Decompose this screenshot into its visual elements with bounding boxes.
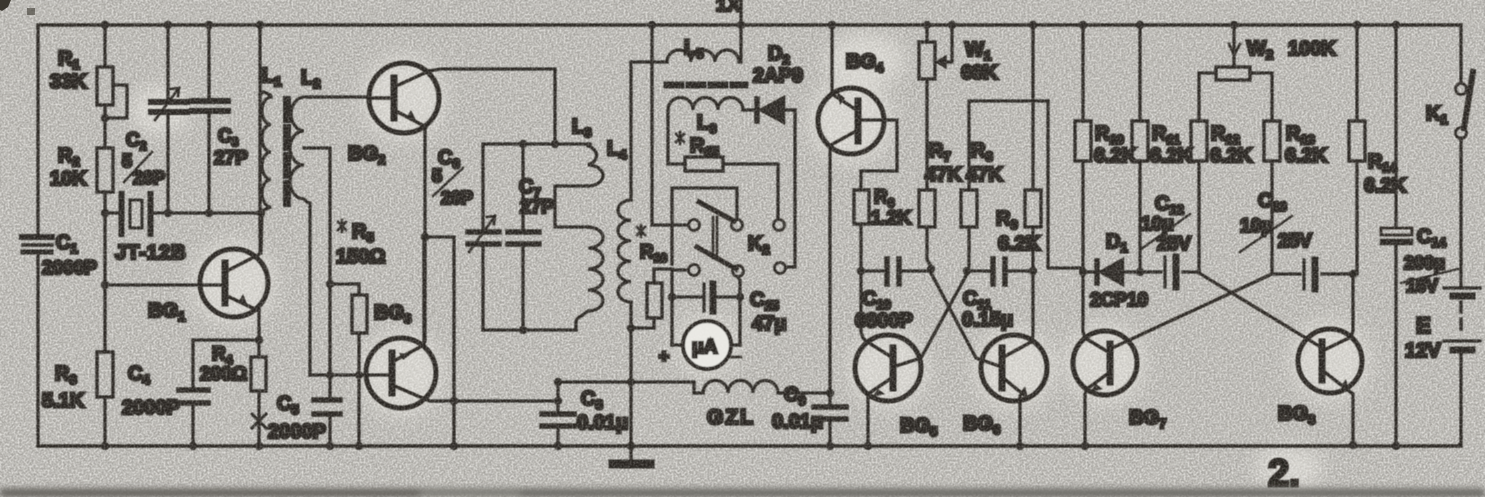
resistor R13 [1264, 121, 1328, 273]
wire right rail bottom corner [1458, 444, 1461, 446]
inductor L2 [290, 67, 320, 375]
node bus R14 [1353, 21, 1361, 29]
transistor BG5 [855, 335, 937, 439]
wire top supply bus [38, 23, 1461, 26]
transistor BG7 [1073, 331, 1166, 431]
wire R1 trimmer hook [108, 85, 127, 118]
relay contact K2 [672, 188, 786, 277]
capacitor C4 [122, 363, 208, 446]
inductor L1 [261, 65, 281, 253]
wire BG1 collector up / L1 bottom [260, 92, 270, 253]
wire R6 to BG5 collector node [859, 224, 862, 271]
node L4 bottom bus [627, 442, 635, 450]
wire BG4 collector down [828, 148, 831, 393]
node base join [101, 281, 109, 289]
node C8 top [554, 378, 562, 386]
resistor R4 [200, 344, 266, 391]
potentiometer W2 [1199, 25, 1336, 121]
node C8 emitter row join [554, 397, 562, 405]
capacitor C5 [268, 393, 340, 446]
wire BG1 base [105, 283, 222, 286]
core L1/L2 [283, 100, 291, 203]
resistor R15 [676, 132, 723, 171]
core L5/L6 [667, 82, 745, 89]
node C13 right [1349, 270, 1357, 278]
wire cross-couple C11 to BG5 base [896, 274, 967, 366]
wire L2 top to BG2 base [310, 95, 369, 98]
star mark C5 selected [252, 412, 266, 430]
transistor BG4 [818, 51, 884, 154]
wire cross-couple C12 to BG8 base [1199, 273, 1319, 346]
node D1 row right [1136, 268, 1144, 276]
node C15 joints [668, 293, 744, 301]
resistor R2 [50, 145, 113, 192]
wire cross-couple C10 to BG6 base [931, 273, 999, 366]
wire antenna 1X [739, 0, 742, 62]
node bus-R1 [101, 21, 109, 29]
resistor R8 [961, 101, 1048, 266]
wire BG8 emitter to bus [1345, 388, 1353, 444]
meter uA [659, 321, 741, 369]
capacitor C8 [542, 382, 628, 446]
capacitor C1 [22, 232, 97, 279]
diode D2 [743, 43, 803, 123]
top-left corner mark [0, 0, 35, 15]
capacitor C15 [672, 284, 786, 335]
wire BG5 collector up [861, 271, 866, 341]
node L4-GZL row cross [627, 378, 635, 386]
capacitor C12 [1140, 193, 1199, 287]
white scan highlight halos [130, 34, 1370, 490]
wire L2 tap to C5 line [304, 148, 330, 400]
node bus R10 [1079, 21, 1087, 29]
node bus-K2 [648, 21, 656, 29]
wire R8 top to D1 row [1048, 101, 1083, 268]
node tank top joints [519, 140, 559, 148]
crystal JT-12B [115, 194, 187, 264]
wire left rail [36, 25, 39, 446]
node R5 top [326, 280, 334, 288]
capacitor C14 [1381, 25, 1458, 446]
capacitor C13 [1240, 190, 1353, 289]
wire bus to K2 upper-left contact [652, 25, 688, 225]
wire L6 left to R15 [668, 110, 685, 164]
node emitter split [255, 336, 263, 344]
wire tank bottom row [483, 328, 576, 331]
node bus W1 [923, 21, 931, 29]
capacitor C2 (trimmer) [122, 25, 187, 213]
node C11 ends [963, 267, 1037, 275]
resistor R16 [631, 225, 672, 328]
transistor BG1 [148, 249, 268, 324]
inductor L3 [572, 116, 603, 330]
node bottom bus joints [101, 441, 1400, 450]
node GZL right [826, 389, 834, 397]
transistor BG2 [348, 63, 439, 167]
node base row joints [326, 371, 363, 379]
node bus-C3 [205, 21, 213, 29]
wire BG6 emitter to bus [1018, 396, 1021, 446]
node tank bottom C7 [519, 326, 527, 334]
wire emitter to ground rail [425, 237, 454, 446]
wire BG2 emitter down [423, 128, 426, 341]
resistor R12 [1191, 121, 1253, 272]
diode D1 [1083, 231, 1148, 311]
wire GZL row [558, 382, 703, 393]
wire BG3 emitter row [425, 399, 558, 401]
wire BG3 base row [310, 373, 392, 376]
resistor R10 [1075, 25, 1137, 272]
node R1 bottom [101, 114, 109, 122]
wire L4 column [629, 62, 632, 446]
inductor GZL [703, 380, 830, 429]
wire BG7 collector up [1083, 272, 1085, 338]
wire cross-couple C13 to BG7 base [1112, 274, 1272, 348]
wire BG7 emitter to bus [1085, 389, 1087, 446]
wire bottom bus [38, 444, 1460, 447]
wire BG3 collector up [422, 237, 425, 345]
transistor BG3 [366, 302, 436, 408]
node crystal row joints [101, 209, 265, 217]
resistor R6 [854, 187, 911, 229]
switch K1 [1426, 25, 1473, 139]
capacitor C11 [962, 259, 1033, 331]
capacitor C3 [192, 25, 248, 213]
node D1 row left [1079, 268, 1087, 276]
wire BG6 collector up [1031, 271, 1033, 342]
wire BG2 collector to tank top [429, 69, 555, 143]
node bus-L1 [256, 21, 264, 29]
node bus W2 [1230, 21, 1238, 29]
node bus W1 wiper [948, 21, 956, 29]
capacitor C6 (trimmer) [432, 145, 499, 330]
node bus BG4 [828, 21, 836, 29]
resistor R1 [50, 48, 113, 105]
wire crystal row [105, 211, 261, 214]
transistor BG8 [1278, 329, 1362, 427]
battery E [1405, 138, 1480, 446]
inductor L6 [668, 98, 743, 137]
wire BG4 emitter to bus [830, 25, 833, 94]
ground [613, 446, 650, 464]
inductor L4 [607, 138, 631, 302]
node bus-C2 [164, 21, 172, 29]
capacitor C10 [855, 259, 931, 332]
node L4-R16 join [627, 324, 635, 332]
resistor R3 [42, 352, 113, 412]
wire K2 lower-left to meter left [672, 270, 688, 345]
wire BG5 emitter to bus [866, 394, 869, 446]
capacitor C9 [772, 384, 846, 446]
node BG2 emitter junction [421, 233, 429, 241]
resistor R7 [919, 140, 962, 266]
node emitter row x454 [450, 397, 458, 405]
wire R15 right to K2 upper contact [723, 164, 778, 219]
wire tank top row [483, 144, 590, 145]
node bus C14 [1392, 21, 1400, 29]
potentiometer W1 [919, 25, 998, 190]
wire BG4 base to R6 [858, 120, 897, 190]
resistor R11 [1132, 25, 1193, 272]
node bus antenna [737, 21, 745, 29]
resistor R14 [1349, 25, 1407, 274]
capacitor C7 [508, 143, 554, 330]
wire L3 tap loop [555, 186, 588, 227]
bottom scan edge band [0, 488, 1485, 497]
node bus R9 [1029, 21, 1037, 29]
wire D2 to K2 lower contact [786, 110, 795, 267]
wire K2 lower-mid to meter right [738, 277, 740, 345]
transistor BG6 [963, 335, 1047, 437]
resistor R5 [330, 220, 385, 446]
inductor L5 [631, 37, 741, 62]
wire BG8 collector up [1351, 274, 1353, 337]
node C10 ends [857, 265, 935, 275]
wire R1/R2 rail [103, 25, 106, 446]
wire BG1 emitter branch [193, 310, 259, 446]
resistor R9 [996, 25, 1041, 271]
node bus R11 [1136, 21, 1144, 29]
